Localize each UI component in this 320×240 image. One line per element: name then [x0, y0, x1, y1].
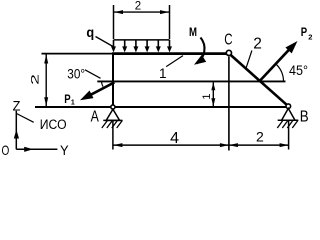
svg-text:Y: Y — [60, 142, 69, 157]
svg-text:4: 4 — [170, 130, 179, 147]
svg-text:2: 2 — [135, 0, 141, 12]
svg-text:ИСО: ИСО — [40, 117, 67, 132]
svg-text:2: 2 — [253, 35, 262, 52]
svg-text:45°: 45° — [289, 63, 308, 78]
svg-text:P: P — [301, 25, 307, 39]
svg-text:1: 1 — [71, 99, 75, 106]
svg-text:A: A — [91, 108, 99, 125]
svg-text:B: B — [300, 108, 309, 125]
svg-text:2: 2 — [29, 74, 41, 85]
svg-text:Z: Z — [13, 98, 21, 113]
svg-text:1: 1 — [201, 93, 213, 99]
svg-text:O: O — [2, 142, 10, 157]
svg-text:q: q — [86, 24, 94, 40]
svg-text:2: 2 — [256, 129, 264, 145]
svg-text:30°: 30° — [67, 66, 85, 81]
svg-text:2: 2 — [308, 33, 312, 42]
svg-text:P: P — [64, 92, 70, 106]
svg-text:M: M — [189, 27, 197, 39]
svg-text:1: 1 — [159, 66, 167, 81]
svg-text:C: C — [224, 31, 232, 48]
